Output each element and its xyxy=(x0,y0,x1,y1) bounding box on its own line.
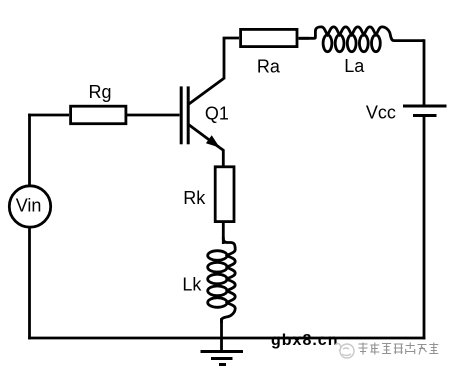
svg-text:Lk: Lk xyxy=(182,275,202,295)
wire Ra to La xyxy=(299,37,310,40)
wire Rg to base xyxy=(127,114,180,117)
svg-text:Rk: Rk xyxy=(183,188,206,208)
wire Rk to Lk xyxy=(222,223,225,244)
wire right vertical lower xyxy=(423,116,426,340)
svg-text:Vin: Vin xyxy=(16,196,42,216)
svg-text:Vcc: Vcc xyxy=(366,103,396,123)
wire emitter to Rk xyxy=(220,148,224,166)
ground xyxy=(201,352,244,365)
watermark logo icon xyxy=(335,344,354,359)
wire left vertical lower xyxy=(28,228,31,339)
inductor La xyxy=(299,27,424,52)
resistor Ra xyxy=(241,29,297,46)
resistor Rk xyxy=(215,167,234,222)
watermark chinese text 半导体器件仿真 xyxy=(359,343,439,355)
voltage source Vin xyxy=(9,186,50,227)
wire left vertical upper xyxy=(28,114,31,185)
svg-text:gbx8.cn: gbx8.cn xyxy=(271,332,338,349)
resistor Rg xyxy=(71,106,126,124)
svg-text:Q1: Q1 xyxy=(205,103,229,123)
wire Lk to ground xyxy=(220,318,223,352)
wire collector top horizontal xyxy=(223,37,239,40)
transistor Q1 xyxy=(181,78,224,147)
inductor Lk xyxy=(208,237,236,323)
svg-text:Rg: Rg xyxy=(88,82,111,102)
wire collector vertical xyxy=(223,38,226,79)
wire top-left horizontal xyxy=(28,114,69,117)
wire bottom horizontal xyxy=(28,337,425,340)
svg-text:Ra: Ra xyxy=(257,56,281,76)
battery Vcc xyxy=(403,106,447,116)
wire right vertical upper xyxy=(423,39,426,106)
svg-text:La: La xyxy=(344,56,365,76)
